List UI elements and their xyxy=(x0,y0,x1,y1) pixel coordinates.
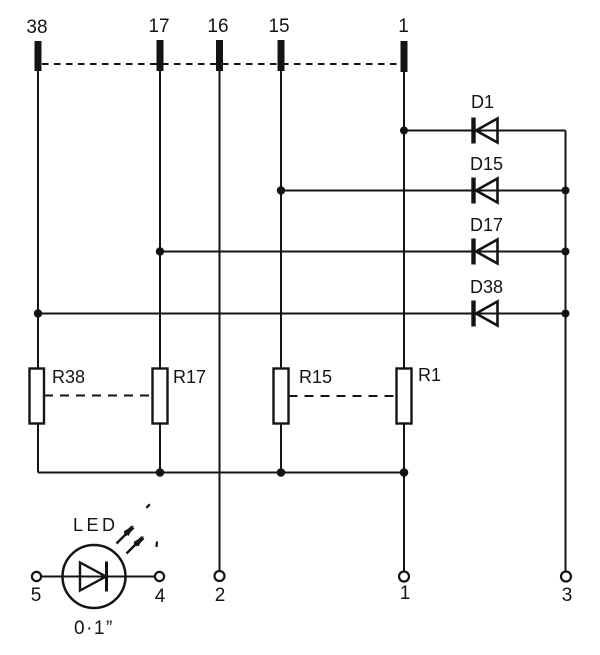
wire column 16 xyxy=(219,71,221,571)
svg-text:3: 3 xyxy=(562,585,573,606)
wire column 15 lower xyxy=(280,424,282,473)
diode D38 xyxy=(470,277,503,327)
svg-text:LED: LED xyxy=(73,515,119,535)
svg-text:D1: D1 xyxy=(471,92,494,112)
node junction bus/D15 xyxy=(562,187,570,195)
svg-text:D15: D15 xyxy=(470,154,503,174)
wire D15 row xyxy=(281,190,566,192)
wire D38 row xyxy=(38,313,566,315)
node junction rail/col1 xyxy=(400,468,409,477)
node junction col1/D1 xyxy=(400,127,408,135)
node junction col38/D38 xyxy=(34,309,42,317)
svg-text:38: 38 xyxy=(26,17,47,38)
dashed link R38-R17 xyxy=(44,395,153,397)
svg-text:16: 16 xyxy=(207,16,228,37)
dashed link R15-R1 xyxy=(289,395,397,397)
wire D1 row xyxy=(404,130,566,132)
resistor R17 xyxy=(153,367,207,424)
LED lamp U1 xyxy=(41,515,155,608)
node junction col17/D17 xyxy=(156,247,164,255)
svg-text:D17: D17 xyxy=(470,215,503,235)
svg-text:1: 1 xyxy=(398,16,409,37)
diode D1 xyxy=(471,92,498,144)
wire right bus vertical xyxy=(565,131,567,572)
svg-text:R17: R17 xyxy=(173,367,206,387)
stray tick mark right xyxy=(155,542,158,548)
diode D17 xyxy=(470,215,503,265)
wire column 15 upper xyxy=(280,71,282,369)
svg-text:R38: R38 xyxy=(52,367,85,387)
resistor R38 xyxy=(30,367,86,424)
terminal 2 xyxy=(215,571,226,606)
pin 38 top bar xyxy=(26,17,47,71)
stray tick mark upper xyxy=(147,505,151,509)
wire D17 row xyxy=(160,251,566,253)
terminal 1 xyxy=(399,572,410,605)
wire column 1 lower xyxy=(403,424,405,572)
wire column 17 lower xyxy=(159,424,161,473)
svg-text:D38: D38 xyxy=(470,277,503,297)
svg-text:4: 4 xyxy=(155,586,166,607)
resistor R15 xyxy=(274,367,333,424)
svg-text:5: 5 xyxy=(31,585,42,606)
pin 1 top bar xyxy=(398,16,409,72)
node junction rail/col15 xyxy=(277,468,286,477)
LED light arrow 2 xyxy=(127,536,145,554)
terminal 3 xyxy=(561,572,572,607)
wire column 38 upper xyxy=(37,71,39,369)
node junction bus/D38 xyxy=(562,310,570,318)
resistor R1 xyxy=(397,365,442,424)
pin 16 top bar xyxy=(207,16,228,71)
wire column 17 upper xyxy=(159,71,161,369)
dashed top bus wire xyxy=(42,63,400,65)
svg-text:1: 1 xyxy=(400,583,411,604)
svg-text:0·1”: 0·1” xyxy=(74,618,114,639)
LED light arrow 1 xyxy=(117,526,135,544)
node junction rail/col17 xyxy=(156,468,165,477)
svg-text:15: 15 xyxy=(268,16,289,37)
node junction col15/D15 xyxy=(277,186,285,194)
node junction bus/D17 xyxy=(562,248,570,256)
terminal 4 xyxy=(155,572,166,607)
wire column 38 lower xyxy=(37,424,39,473)
svg-text:R1: R1 xyxy=(418,365,441,385)
pin 15 top bar xyxy=(268,16,289,71)
svg-text:17: 17 xyxy=(148,16,169,37)
terminal 5 xyxy=(31,572,42,606)
pin 17 top bar xyxy=(148,16,169,71)
svg-text:2: 2 xyxy=(215,585,226,606)
wire column 1 upper xyxy=(403,71,405,369)
wire bottom rail xyxy=(38,472,404,474)
diode D15 xyxy=(470,154,503,204)
svg-text:R15: R15 xyxy=(299,367,332,387)
